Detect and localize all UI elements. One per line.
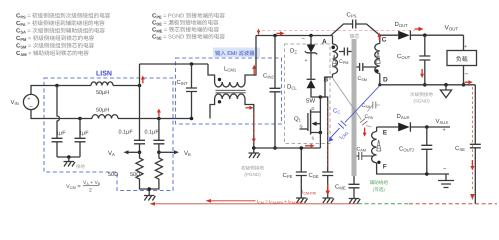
current arrow right at SGND rail end xyxy=(465,80,473,84)
capacitor 1uF left lower lead xyxy=(56,142,58,157)
capacitor Cpm plates xyxy=(344,48,347,56)
capacitor 0.1uF left drop xyxy=(139,86,141,141)
aux winding gradient wedge xyxy=(377,140,381,151)
node VA xyxy=(138,151,142,155)
svg-text:初级侧接地: 初级侧接地 xyxy=(241,166,264,171)
capacitor Cse lower lead xyxy=(474,148,476,204)
current arrow up on top riser xyxy=(252,65,256,77)
svg-text:50Ω: 50Ω xyxy=(130,172,140,178)
svg-text:50µH: 50µH xyxy=(96,108,109,114)
capacitor Cam lead xyxy=(357,155,373,157)
wire 1uF common join xyxy=(57,156,80,158)
ground LISN resistors xyxy=(144,196,156,201)
svg-text:LISN: LISN xyxy=(96,71,112,78)
wire Vin top xyxy=(31,86,57,95)
diode Dout bar xyxy=(409,31,411,41)
capacitor Cpe plates xyxy=(296,172,307,176)
svg-text:CC: CC xyxy=(333,108,340,115)
wire F to aux rail xyxy=(377,163,449,174)
Q1 gate bar xyxy=(307,113,309,131)
LISN box xyxy=(44,78,173,191)
node Cout2 bottom xyxy=(425,172,429,176)
svg-text:VIN: VIN xyxy=(11,99,19,106)
capacitor Csm lead xyxy=(357,66,377,68)
node SGND stub xyxy=(444,83,448,87)
capacitor 1uF right lower lead xyxy=(79,142,81,157)
ground SGND triangle xyxy=(440,85,451,98)
node D xyxy=(378,83,381,86)
svg-text:CPA: CPA xyxy=(365,114,374,120)
wire SW to drain xyxy=(311,97,321,112)
stray line B to E xyxy=(332,77,372,128)
svg-text:DAUX: DAUX xyxy=(397,113,410,120)
svg-text:(可选): (可选) xyxy=(373,187,386,192)
svg-text:输入 EMI 滤波器: 输入 EMI 滤波器 xyxy=(215,50,255,57)
svg-text:−: − xyxy=(302,37,306,43)
wire E rail xyxy=(377,126,399,128)
wire source to PGND rail xyxy=(319,133,321,149)
choke top winding xyxy=(208,36,256,88)
svg-text:CPE = PGND 到接地端的电容: CPE = PGND 到接地端的电容 xyxy=(152,13,225,20)
svg-text:Q1: Q1 xyxy=(294,116,302,123)
capacitor Cde upper lead from drain xyxy=(320,97,327,172)
svg-text:CINT: CINT xyxy=(177,79,189,86)
ground aux xyxy=(438,174,454,188)
capacitor Cin2 lower lead xyxy=(274,92,276,148)
svg-text:CPM = 初级侧绕组到铁芯的电容: CPM = 初级侧绕组到铁芯的电容 xyxy=(16,35,95,42)
capacitor 1uF left plates xyxy=(52,138,63,142)
svg-text:+: + xyxy=(305,58,308,64)
capacitor Cps bridge xyxy=(331,24,380,35)
diode Daux body xyxy=(398,123,410,132)
node Dz top xyxy=(309,34,313,38)
capacitor 0.1uF left plates xyxy=(134,140,145,144)
svg-text:VA: VA xyxy=(108,150,115,157)
capacitor Cde lower lead xyxy=(327,176,329,199)
svg-text:CSE = SGND 到接地端的电容: CSE = SGND 到接地端的电容 xyxy=(152,34,225,41)
current arrow up at bottom node xyxy=(157,109,161,117)
aux winding optional label xyxy=(370,180,389,192)
svg-text:VA + VB: VA + VB xyxy=(83,180,101,186)
svg-text:50µH: 50µH xyxy=(96,90,109,96)
Cc arrowhead xyxy=(329,137,334,142)
choke core lines xyxy=(216,90,246,93)
noise arrow right at top rail start xyxy=(277,31,285,35)
wire SGND rail xyxy=(380,84,476,86)
capacitor Cout upper lead xyxy=(424,35,426,56)
primary winding xyxy=(333,44,338,74)
svg-text:DCL: DCL xyxy=(287,84,297,91)
svg-text:VB: VB xyxy=(184,150,191,157)
ground Cde xyxy=(322,198,334,203)
capacitor Cam plates xyxy=(359,152,362,160)
node top-left junction xyxy=(55,84,59,88)
earth line solid xyxy=(155,203,358,205)
node F xyxy=(377,161,380,164)
transformer core bar xyxy=(352,39,357,176)
svg-text:(PGND): (PGND) xyxy=(244,172,261,177)
wire top to inductor xyxy=(57,85,91,87)
wire bottom inductor to node xyxy=(118,118,159,120)
capacitor Cme lower lead xyxy=(353,188,355,199)
wire resistor join xyxy=(140,186,159,196)
capacitor Cin2 upper lead xyxy=(274,36,276,89)
node top 0.1uF junction xyxy=(138,84,142,88)
load box xyxy=(447,51,477,66)
capacitor Cse plates xyxy=(470,144,481,148)
inductor 50uH top xyxy=(91,82,113,86)
svg-text:CPS = 初级侧绕组到次级侧绕组的电容: CPS = 初级侧绕组到次级侧绕组的电容 xyxy=(16,13,111,20)
noise path dashed on Cde branch xyxy=(327,101,329,168)
source Vin xyxy=(23,94,38,109)
noise arrow down right bottom xyxy=(470,194,474,200)
aux winding spine lead xyxy=(376,127,378,132)
wire PGND rail xyxy=(254,147,321,149)
wire Daux to Vaux xyxy=(410,126,450,128)
node Cin2 top xyxy=(273,34,277,38)
noise arrow down mid right xyxy=(470,160,474,171)
capacitor Cpe lower lead xyxy=(300,176,302,199)
svg-text:接地: 接地 xyxy=(76,164,85,169)
current arrow down at Cout xyxy=(420,69,424,78)
capacitor Csa plates xyxy=(373,102,376,109)
capacitor Cpm lead xyxy=(339,51,352,53)
capacitor Cout2 upper lead xyxy=(426,127,428,145)
capacitor Cde plates xyxy=(322,172,333,176)
svg-text:1µF: 1µF xyxy=(56,131,66,137)
svg-text:LCM1: LCM1 xyxy=(224,66,237,73)
svg-text:F: F xyxy=(383,164,387,171)
capacitor Cme upper lead from core xyxy=(353,176,355,184)
noise arrow down Icm-pri xyxy=(326,184,330,196)
node Cout2 top xyxy=(425,125,429,129)
choke bottom winding dot xyxy=(218,100,221,103)
svg-text:辅助绕组: 辅助绕组 xyxy=(370,180,389,185)
node 1uF join xyxy=(67,155,71,159)
node Cin2 bottom xyxy=(273,146,277,150)
wire riser up to EMI link xyxy=(139,64,141,86)
node Cout top xyxy=(423,33,427,37)
svg-text:E: E xyxy=(383,130,388,137)
svg-text:S: S xyxy=(312,136,315,141)
svg-text:CPE: CPE xyxy=(283,172,293,179)
current arrow up on riser xyxy=(141,76,145,84)
wire Dz to Dcl xyxy=(310,53,312,80)
svg-text:0.1µF: 0.1µF xyxy=(145,130,160,136)
svg-text:CAM = 辅助绕组到铁芯的电容: CAM = 辅助绕组到铁芯的电容 xyxy=(16,50,89,57)
diode Dcl body xyxy=(307,80,316,88)
svg-text:+: + xyxy=(464,44,467,50)
svg-text:−: − xyxy=(443,167,447,173)
node SW xyxy=(319,95,323,99)
wire secondary top rail xyxy=(380,34,398,36)
svg-text:DZ: DZ xyxy=(290,48,297,55)
svg-text:(SGND): (SGND) xyxy=(413,99,430,104)
Q1 body arrow xyxy=(317,112,321,133)
svg-text:次级侧接地: 次级侧接地 xyxy=(410,92,433,97)
current arrow down on bottom riser (dashed red) xyxy=(252,112,256,143)
zener Dz bar xyxy=(305,51,317,54)
capacitor Cpa plates (diagonal) xyxy=(360,119,368,126)
VB probe arrow xyxy=(159,151,175,153)
Q1 source node xyxy=(319,131,323,135)
current arrow right on PGND rail xyxy=(305,144,315,148)
earth line green dashed xyxy=(358,203,409,205)
noise arrow down near E xyxy=(363,128,367,137)
svg-text:铁芯: 铁芯 xyxy=(350,33,360,40)
svg-text:CSM: CSM xyxy=(358,76,367,82)
svg-text:CIN2: CIN2 xyxy=(263,73,275,80)
capacitor 0.1uF right lower lead xyxy=(158,144,160,153)
capacitor Cin2 plates xyxy=(270,88,281,92)
svg-text:CSE: CSE xyxy=(455,145,465,152)
svg-text:COUT: COUT xyxy=(397,53,411,60)
primary winding lead from rail xyxy=(332,36,334,45)
converter dashed box xyxy=(285,44,331,144)
capacitor 1uF left drop with hop over bottom wire xyxy=(57,86,60,139)
Q1 gate lead xyxy=(300,128,308,130)
PGND label xyxy=(241,166,264,178)
svg-text:ICM2: ICM2 xyxy=(339,130,350,141)
node bottom 1uF junction xyxy=(78,117,82,121)
capacitor Csm plates xyxy=(360,63,363,71)
ground PGND xyxy=(249,148,261,158)
diode Daux bar xyxy=(409,122,411,131)
node resistor join xyxy=(147,187,151,191)
lumped capacitor Cc line (blue) xyxy=(331,86,380,138)
svg-text:50Ω: 50Ω xyxy=(108,172,118,178)
svg-text:CME: CME xyxy=(335,184,346,191)
transistor Q1 xyxy=(300,106,323,141)
svg-text:ICM-PRI: ICM-PRI xyxy=(302,190,316,196)
svg-text:A: A xyxy=(322,39,327,46)
svg-text:VOUT: VOUT xyxy=(445,25,459,32)
svg-text:D: D xyxy=(312,106,315,111)
secondary winding xyxy=(375,44,380,74)
ground Cme xyxy=(349,199,361,204)
capacitor Cout lower lead xyxy=(424,60,426,85)
svg-text:1µF: 1µF xyxy=(79,131,89,137)
EMI filter box xyxy=(176,58,282,124)
aux winding xyxy=(372,132,377,163)
svg-text:CDE = 漏极到接地端的电容: CDE = 漏极到接地端的电容 xyxy=(152,20,219,27)
capacitor Cout2 plates xyxy=(421,145,432,149)
zener Dz lead xyxy=(310,36,312,45)
svg-text:CPA = 初级侧绕组到辅助绕组的电容: CPA = 初级侧绕组到辅助绕组的电容 xyxy=(16,20,105,27)
noise path dashed along top xyxy=(262,30,415,32)
wire Vout drop to load xyxy=(463,35,465,50)
svg-text:SW: SW xyxy=(306,98,316,105)
primary winding gradient wedge xyxy=(332,55,336,67)
capacitor Csa link xyxy=(368,105,380,112)
secondary winding dot xyxy=(375,69,379,73)
capacitor Cint upper lead xyxy=(191,64,193,88)
secondary winding lead from C xyxy=(379,35,381,43)
svg-text:−: − xyxy=(465,71,469,78)
svg-text:G: G xyxy=(300,124,303,129)
noise arrow up at node C xyxy=(377,33,381,40)
resistor 50ohm right xyxy=(155,152,162,186)
noise arrow right at top path end xyxy=(415,27,424,31)
svg-text:CPM: CPM xyxy=(339,59,348,65)
wire bottom to inductor xyxy=(80,118,92,120)
wire top link LISN to choke xyxy=(140,63,209,65)
capacitor Cpe upper lead xyxy=(300,148,302,172)
node Cpe top xyxy=(300,146,304,150)
primary winding dot xyxy=(331,46,335,50)
capacitor Cint lower lead xyxy=(191,92,193,119)
capacitor Cint plates xyxy=(186,88,197,92)
svg-text:VCM =: VCM = xyxy=(66,184,81,190)
capacitor Cout2 lower lead xyxy=(426,149,428,174)
resistor 50ohm left xyxy=(136,152,143,186)
svg-text:负载: 负载 xyxy=(456,55,468,63)
svg-text:B: B xyxy=(324,77,329,84)
node Cint top xyxy=(190,62,194,66)
capacitor 1uF right drop xyxy=(79,119,81,139)
noise path dashed right side lower xyxy=(471,172,473,190)
node PGND rail left xyxy=(252,146,256,150)
svg-text:VAUX: VAUX xyxy=(436,118,449,125)
zener Dz body xyxy=(307,45,316,53)
Cc capacitor plates xyxy=(338,121,346,129)
wire primary top rail xyxy=(256,35,333,37)
svg-text:COUT2: COUT2 xyxy=(399,146,415,153)
svg-text:+: + xyxy=(443,128,446,134)
diode Dout body xyxy=(398,31,410,40)
capacitor Cout plates xyxy=(419,56,430,60)
wire Dcl to SW node xyxy=(311,88,320,97)
node Cint bottom xyxy=(190,117,194,121)
svg-text:D: D xyxy=(383,77,388,84)
Q1 channel bar xyxy=(310,110,312,135)
svg-text:C: C xyxy=(382,37,387,44)
earth line red dashed xyxy=(409,203,497,205)
current arrow right at choke bottom output xyxy=(246,106,254,110)
ground Cpe xyxy=(296,198,308,203)
capacitor Cps plates xyxy=(353,20,356,29)
secondary winding lead to D xyxy=(379,74,381,85)
wire Vin bottom xyxy=(31,110,80,119)
ground LISN caps xyxy=(64,157,76,167)
capacitor 0.1uF right drop xyxy=(158,119,160,141)
svg-text:2: 2 xyxy=(89,188,92,194)
earth line left arrowhead xyxy=(150,202,156,206)
wire primary bottom to SW xyxy=(320,74,332,97)
svg-text:+: + xyxy=(28,97,31,103)
noise path dashed right side xyxy=(471,87,473,158)
capacitor 1uF right plates xyxy=(75,138,86,142)
node bottom 0.1uF junction xyxy=(157,117,161,121)
choke bottom winding xyxy=(210,94,254,148)
capacitor 0.1uF right plates xyxy=(153,140,164,144)
svg-text:CDE: CDE xyxy=(309,172,319,179)
svg-text:CME = 铁芯到接地端的电容: CME = 铁芯到接地端的电容 xyxy=(152,27,219,34)
inductor 50uH bottom xyxy=(92,115,118,119)
choke top winding dot xyxy=(218,78,221,81)
secondary winding gradient wedge xyxy=(376,50,380,63)
current arrow up at riser top corner xyxy=(257,29,261,35)
svg-text:CAM: CAM xyxy=(357,147,366,153)
VA probe arrow xyxy=(128,151,140,153)
wire Cse branch xyxy=(474,85,476,145)
capacitor Cme plates xyxy=(349,184,360,188)
Vcm formula xyxy=(66,180,101,194)
svg-text:DOUT: DOUT xyxy=(395,21,409,28)
Icm annotation arrow xyxy=(206,199,212,203)
svg-text:0.1µF: 0.1µF xyxy=(119,130,134,136)
svg-text:CSA = 次级侧绕组到辅助绕组的电容: CSA = 次级侧绕组到辅助绕组的电容 xyxy=(16,28,105,35)
wire load to SGND rail xyxy=(463,66,465,85)
node Cout bottom xyxy=(423,83,427,87)
node load bottom xyxy=(462,83,466,87)
svg-text:CSM = 次级侧绕组到铁芯的电容: CSM = 次级侧绕组到铁芯的电容 xyxy=(16,43,95,50)
wire Dout to Vout xyxy=(410,34,463,36)
wire top inductor to riser xyxy=(113,85,140,87)
wire bottom exit to EMI xyxy=(159,118,192,120)
Q1 source lead xyxy=(311,132,321,134)
svg-text:CPS: CPS xyxy=(347,12,357,19)
capacitor 0.1uF left lower lead xyxy=(139,144,141,153)
diode Dcl bar xyxy=(307,78,316,80)
EMI filter label highlight xyxy=(213,48,260,58)
node VB xyxy=(157,151,161,155)
SGND label xyxy=(410,92,433,104)
